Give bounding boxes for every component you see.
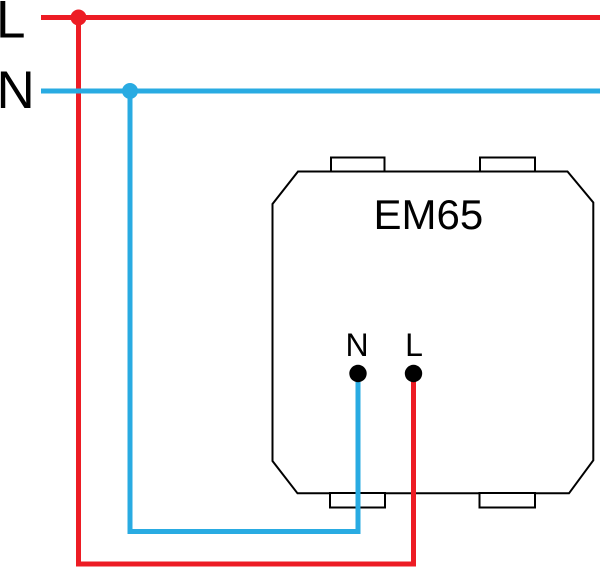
svg-text:N: N — [0, 61, 35, 120]
svg-text:L: L — [405, 327, 423, 363]
svg-text:N: N — [345, 327, 368, 363]
svg-text:EM65: EM65 — [374, 191, 484, 238]
svg-text:L: L — [0, 0, 25, 50]
